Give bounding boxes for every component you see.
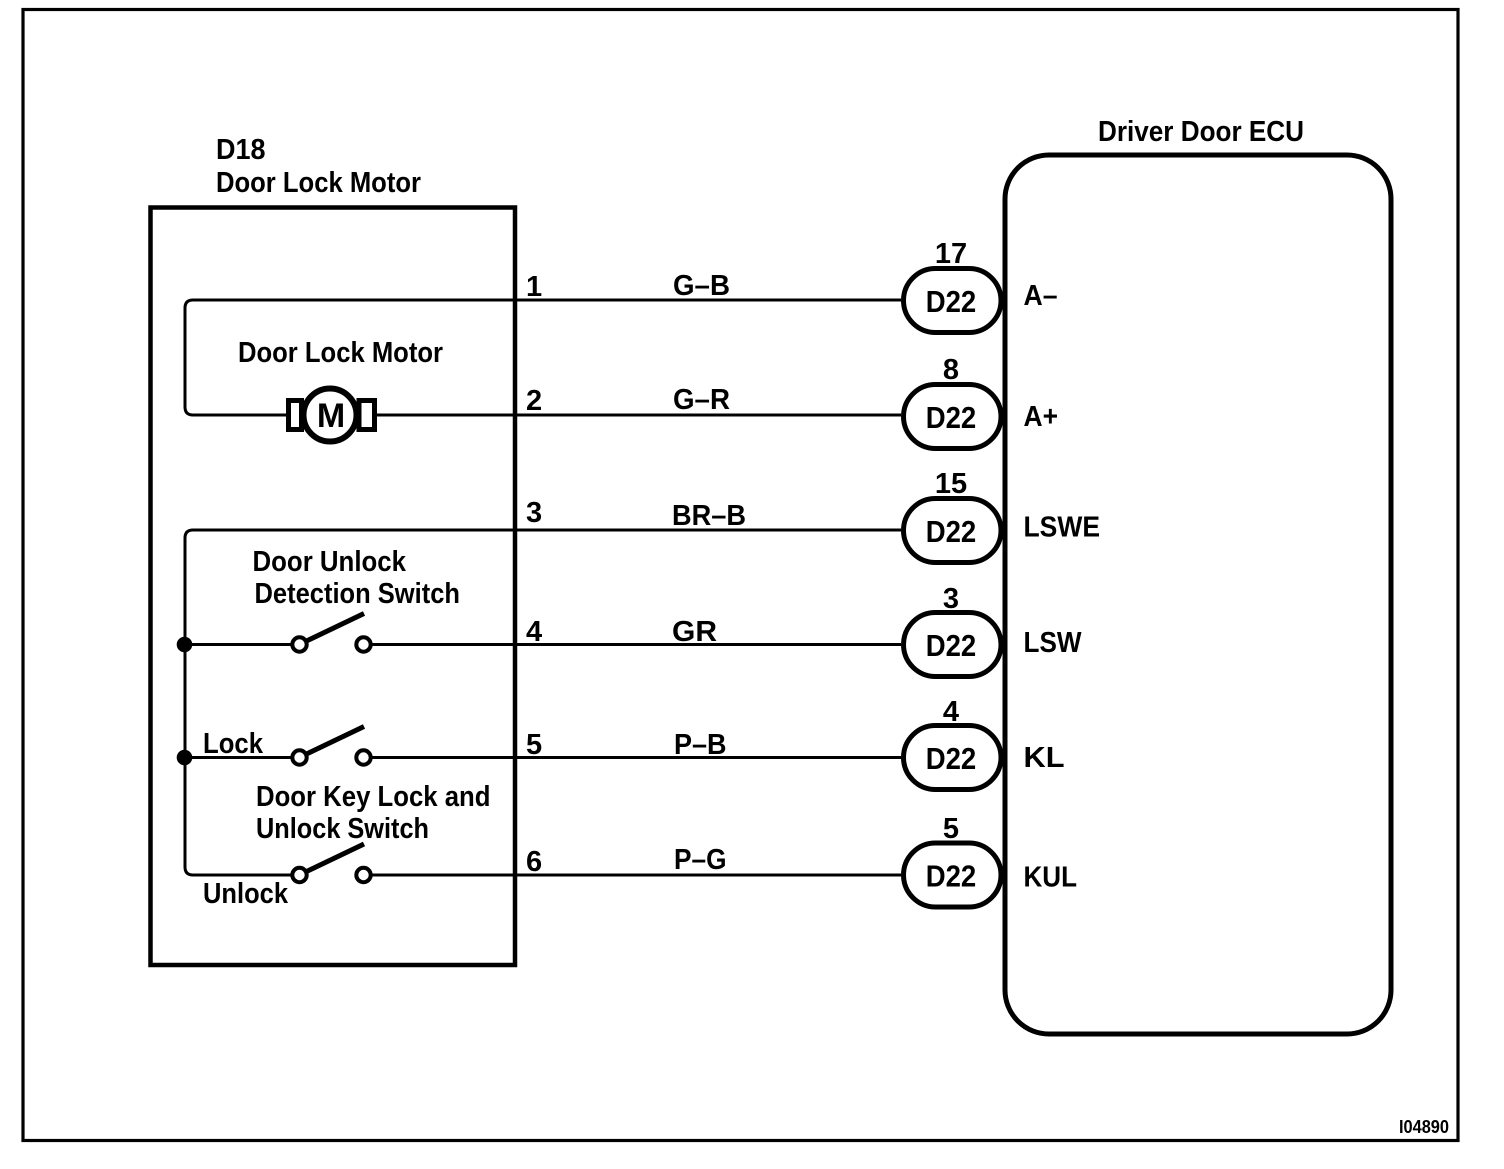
svg-text:KL: KL	[1024, 742, 1065, 774]
connector D22 pin 17	[904, 238, 1002, 333]
svg-text:D22: D22	[926, 741, 977, 776]
connector D22 pin 5	[904, 813, 1002, 907]
motor M1 body	[304, 389, 357, 442]
svg-text:A–: A–	[1024, 280, 1058, 312]
svg-text:6: 6	[526, 846, 542, 878]
wire 2 (motor loop bottom)	[185, 407, 901, 415]
svg-text:5: 5	[526, 729, 542, 761]
svg-text:D22: D22	[926, 284, 977, 319]
svg-text:Detection Switch: Detection Switch	[255, 578, 461, 610]
connector oval	[904, 613, 1002, 677]
svg-text:D22: D22	[926, 628, 977, 663]
D18 component box	[151, 208, 516, 966]
connector oval	[904, 499, 1002, 563]
svg-text:A+: A+	[1024, 401, 1059, 433]
connector oval	[904, 385, 1002, 449]
wire 5 right part	[372, 756, 901, 759]
svg-text:D22: D22	[926, 859, 977, 894]
svg-text:Door Unlock: Door Unlock	[253, 546, 407, 578]
svg-text:8: 8	[943, 354, 959, 386]
S2 blade	[307, 727, 365, 755]
S2 contact left	[292, 750, 306, 764]
switch S3 (key unlock)	[292, 844, 370, 882]
wire 5 left part	[185, 756, 291, 759]
connector oval	[904, 269, 1002, 333]
svg-text:G–R: G–R	[673, 384, 730, 416]
svg-text:1: 1	[526, 271, 542, 303]
svg-text:P–G: P–G	[674, 844, 727, 876]
S1 blade	[307, 614, 365, 642]
S3 contact right	[356, 868, 370, 882]
svg-text:M: M	[317, 397, 345, 435]
svg-text:Lock: Lock	[203, 728, 264, 760]
svg-text:Driver Door ECU: Driver Door ECU	[1098, 116, 1304, 148]
S3 blade	[307, 844, 365, 872]
svg-text:Door Lock Motor: Door Lock Motor	[216, 167, 421, 199]
S3 contact left	[292, 868, 306, 882]
svg-text:2: 2	[526, 385, 542, 417]
svg-text:KUL: KUL	[1024, 862, 1078, 894]
svg-text:LSW: LSW	[1024, 627, 1083, 659]
wire 1 (motor loop top)	[185, 300, 901, 407]
motor M1 brush right	[359, 401, 375, 430]
svg-text:17: 17	[935, 238, 967, 270]
motor M1 brush left	[289, 401, 302, 430]
svg-text:Unlock: Unlock	[203, 878, 289, 910]
svg-text:I04890: I04890	[1399, 1117, 1449, 1137]
wire 6 right part	[372, 874, 901, 877]
svg-text:15: 15	[935, 468, 967, 500]
connector D22 pin 8	[904, 354, 1002, 449]
connector D22 pin 4	[904, 696, 1002, 790]
junction dot wire 5	[177, 750, 193, 766]
connector oval	[904, 843, 1002, 907]
S1 contact right	[356, 637, 370, 651]
svg-text:Door Key Lock and: Door Key Lock and	[256, 781, 491, 813]
svg-text:LSWE: LSWE	[1024, 512, 1101, 544]
svg-text:D18: D18	[216, 134, 266, 166]
switch S1 (door unlock detection)	[292, 614, 370, 652]
connector D22 pin 15	[904, 468, 1002, 563]
svg-text:D22: D22	[926, 514, 977, 549]
svg-text:Unlock Switch: Unlock Switch	[256, 813, 429, 845]
wire 4 right part	[372, 643, 901, 646]
svg-text:G–B: G–B	[673, 270, 730, 302]
junction dot wire 4	[177, 637, 193, 653]
svg-text:D22: D22	[926, 400, 977, 435]
S1 contact left	[292, 637, 306, 651]
svg-text:5: 5	[943, 813, 959, 845]
wire 4 left part	[185, 643, 291, 646]
wire 3 + switch bus + wire 6 left part	[185, 530, 901, 875]
ECU box	[1005, 155, 1391, 1034]
svg-text:P–B: P–B	[674, 729, 727, 761]
switch S2 (key lock)	[292, 727, 370, 765]
svg-text:4: 4	[526, 616, 542, 648]
connector D22 pin 3	[904, 583, 1002, 677]
connector oval	[904, 726, 1002, 790]
svg-text:BR–B: BR–B	[672, 500, 746, 532]
svg-text:3: 3	[526, 497, 542, 529]
svg-text:GR: GR	[672, 616, 717, 648]
svg-text:Door Lock Motor: Door Lock Motor	[238, 337, 443, 369]
S2 contact right	[356, 750, 370, 764]
